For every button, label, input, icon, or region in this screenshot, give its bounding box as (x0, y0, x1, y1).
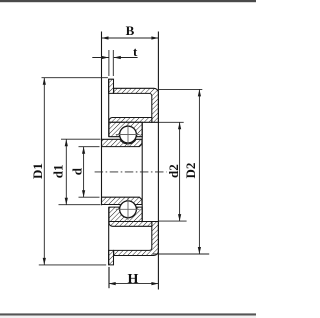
housing right face + B right extension + H right extension (157, 32, 159, 290)
ball upper (rolling element) (120, 126, 137, 143)
dimension B: width dimension line (102, 37, 159, 39)
centerline: shaft axis chain line (95, 171, 167, 173)
ball lower (rolling element) (120, 201, 137, 218)
svg-text:d1: d1 (50, 165, 65, 179)
dimension d1: inner ring OD dimension line (65, 139, 67, 205)
housing top wall + right wall upper (114, 88, 159, 122)
arrow H right (151, 282, 158, 285)
dimension D1: flange OD dimension line (43, 78, 45, 265)
dimension d1: top extension line (61, 138, 101, 140)
outer ring OD band lower (109, 222, 152, 227)
dimension d2: housing hole dimension line (179, 122, 181, 221)
bottom page border (0, 313, 256, 315)
dimension t: left extension line (108, 50, 110, 76)
arrow d2 top (178, 122, 181, 129)
arrow D2 top (198, 89, 201, 96)
arrow d1 top (65, 139, 68, 146)
flange left face upper + cavity edge (108, 79, 110, 137)
dimension t: left leader (92, 57, 108, 59)
svg-text:H: H (128, 272, 139, 287)
outer ring race mass upper (109, 122, 142, 136)
svg-text:d2: d2 (166, 164, 181, 178)
dimension D1: bottom extension line (39, 264, 106, 266)
dimension D2: top extension line (159, 88, 202, 90)
arrowheads (43, 36, 201, 285)
flange upper cross-section (109, 79, 114, 93)
arrow D1 top (43, 78, 46, 85)
inner-ring left face + B left extension (101, 32, 103, 206)
dimension d: top extension line (79, 146, 100, 148)
arrow D2 bottom (198, 247, 201, 254)
housing bottom wall + right wall lower (114, 222, 159, 256)
arrow D1 bottom (43, 258, 46, 265)
arrow d bottom (82, 190, 85, 197)
dimension d: bore dimension line (83, 147, 85, 198)
inner ring upper band (102, 139, 142, 146)
dimension H: housing depth dimension line (109, 283, 159, 285)
dimension d: bottom extension line (79, 196, 100, 198)
flange left face lower + H left extension (108, 207, 110, 265)
arrow B right (151, 36, 158, 39)
svg-text:d: d (69, 167, 84, 175)
dimension d2: bottom extension line (159, 220, 187, 222)
arrow H left (109, 282, 116, 285)
arrow d top (82, 147, 85, 154)
outer ring OD band upper (109, 118, 152, 123)
arrow d2 bottom (178, 214, 181, 221)
svg-text:D2: D2 (183, 163, 198, 179)
inner ring lower band (102, 197, 142, 209)
dimension t: right leader (114, 57, 138, 59)
dimension d2: top extension line (159, 121, 184, 123)
arrow d1 bottom (65, 198, 68, 205)
svg-text:D1: D1 (30, 163, 45, 179)
flange lower cross-section (109, 250, 114, 265)
outer ring race mass lower (109, 207, 142, 221)
dimension d1: bottom extension line (59, 204, 101, 206)
arrow t left (102, 56, 109, 59)
dimension D2: bottom extension line (153, 253, 210, 255)
svg-text:B: B (126, 23, 135, 38)
dimension t: right extension line (112, 50, 114, 76)
arrow B left (102, 36, 109, 39)
inner ring right face (through bore) (141, 122, 143, 221)
arrow t right (114, 56, 121, 59)
dimension D1: top extension line (42, 77, 108, 79)
svg-text:t: t (133, 44, 138, 59)
dimension D2: housing OD dimension line (198, 89, 200, 254)
top page border (0, 0, 256, 2)
